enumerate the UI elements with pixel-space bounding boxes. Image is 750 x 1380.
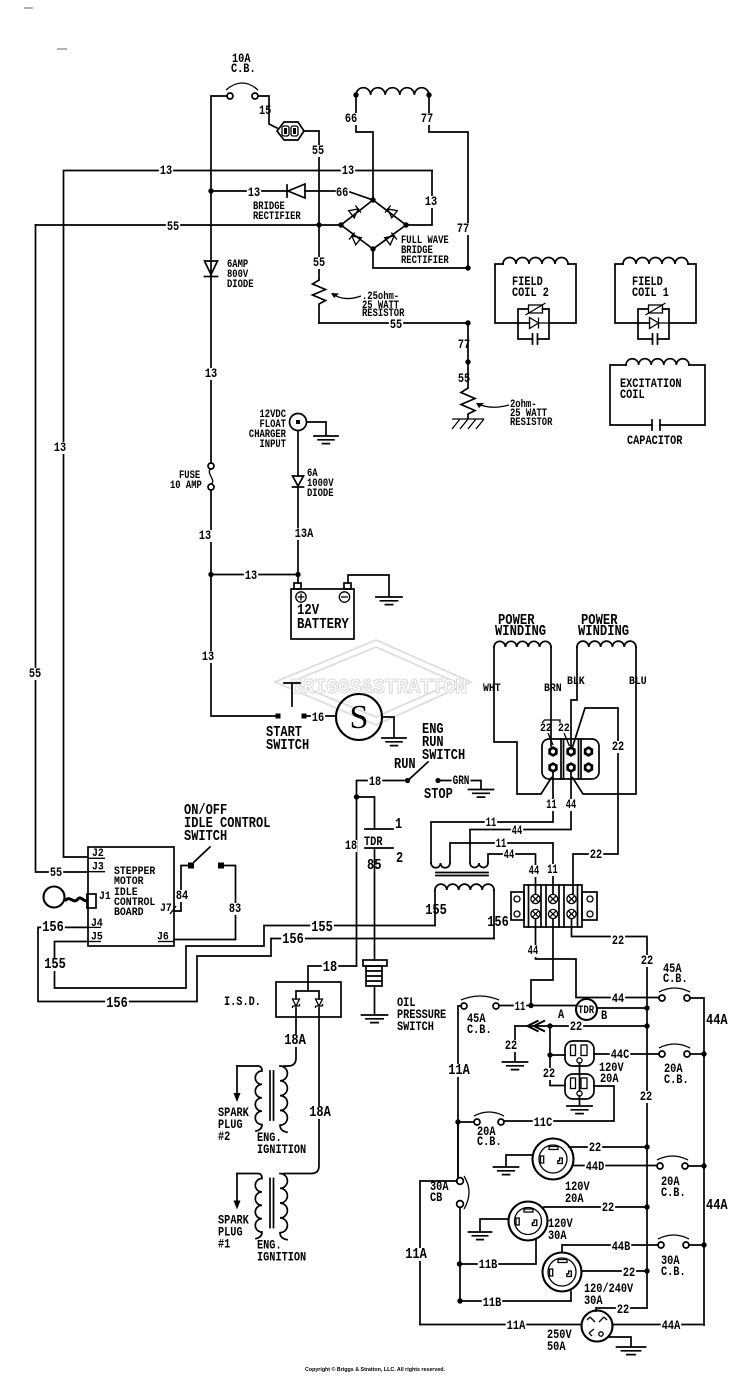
- svg-text:C.B.: C.B.: [477, 1134, 502, 1149]
- svg-text:11A: 11A: [448, 1063, 470, 1079]
- svg-text:C.B.: C.B.: [467, 1022, 492, 1037]
- wire 13 horizontal top: [64, 171, 433, 858]
- svg-text:C.B.: C.B.: [661, 1264, 686, 1279]
- svg-text:156: 156: [487, 915, 509, 931]
- svg-text:155: 155: [44, 957, 66, 973]
- ignition coil ENG IGNITION #1: [234, 1174, 288, 1240]
- wire diode to 66 node: [305, 191, 373, 200]
- watermark Briggs Stratton hexagon: [275, 640, 471, 725]
- wire 13 to bridge rectifier diode: [211, 190, 287, 192]
- terminal screw: [567, 909, 576, 918]
- svg-text:STOP: STOP: [424, 787, 453, 803]
- resistor 2 ohm 25 watt: [461, 323, 475, 418]
- circuit breaker 20A (11C): [474, 1119, 480, 1125]
- svg-text:44A: 44A: [706, 1013, 728, 1029]
- connector plug 15: [277, 122, 304, 140]
- wire 44C duplex to 20A breaker: [594, 1053, 659, 1055]
- svg-text:CAPACITOR: CAPACITOR: [627, 433, 683, 448]
- svg-text:22: 22: [590, 847, 602, 862]
- wire breaker left to node 13: [211, 96, 227, 191]
- svg-text:84: 84: [176, 888, 188, 903]
- svg-text:22: 22: [589, 1140, 601, 1155]
- svg-text:22: 22: [540, 723, 552, 735]
- svg-text:#1: #1: [218, 1237, 230, 1252]
- svg-text:11B: 11B: [483, 1295, 502, 1310]
- svg-text:155: 155: [311, 920, 333, 936]
- wire 156 J4 to transformer: [38, 927, 494, 1001]
- wire 77 node down: [465, 359, 470, 364]
- transformer secondary winding 155/156: [435, 884, 494, 890]
- generator output connector block: [542, 739, 599, 779]
- svg-text:13: 13: [202, 649, 214, 664]
- svg-text:30A: 30A: [548, 1228, 567, 1243]
- wire 45A CB to 44A column: [690, 998, 704, 1325]
- terminal screw: [548, 909, 557, 918]
- svg-text:156: 156: [42, 920, 64, 936]
- twist lock outlet 120/240V 30A: [543, 1253, 582, 1292]
- wire 11C duplex to 20A breaker: [504, 1086, 614, 1121]
- twist lock outlet 120V 30A: [509, 1202, 548, 1241]
- svg-text:1: 1: [395, 817, 402, 833]
- wire secondary right to 156: [493, 890, 495, 939]
- wire 18A to ignition 2: [284, 1017, 296, 1066]
- svg-text:Copyright © Briggs & Stratton,: Copyright © Briggs & Stratton, LLC. All …: [305, 1366, 445, 1373]
- svg-text:J4: J4: [91, 918, 103, 930]
- svg-text:44B: 44B: [612, 1239, 631, 1254]
- svg-text:WHT: WHT: [483, 683, 501, 695]
- wire secondary left to 155: [434, 890, 436, 926]
- wire 55 down to resistor: [318, 225, 320, 280]
- circuit breaker 20A (44D): [657, 1163, 663, 1169]
- svg-text:BRN: BRN: [544, 683, 562, 695]
- wire 155 J5 to transformer: [55, 926, 436, 989]
- svg-text:66: 66: [345, 111, 357, 126]
- wire charger to diode 13A: [297, 431, 299, 477]
- wire 44A to outlet: [613, 1324, 704, 1326]
- TDR timer coil: [357, 797, 394, 960]
- wire 11 to 45A breaker left: [499, 1005, 576, 1007]
- wire 11A to bottom: [420, 1181, 457, 1325]
- terminal screw: [567, 894, 576, 903]
- wire 22 splice to column: [515, 1025, 647, 1027]
- diode 6AMP 800V: [205, 261, 218, 277]
- wire 18 run to TDR column: [357, 781, 405, 967]
- svg-text:A: A: [558, 1007, 564, 1022]
- TDR relay contact: [576, 999, 597, 1020]
- transformer primary winding B: [470, 863, 488, 868]
- diode 6A 1000V: [293, 476, 304, 487]
- wire starter to ground: [382, 717, 394, 737]
- svg-text:55: 55: [313, 255, 325, 270]
- wires inside ISD: [296, 982, 319, 1017]
- svg-text:C.B.: C.B.: [663, 971, 688, 986]
- circuit breaker 45A left: [461, 1003, 467, 1009]
- svg-text:RECTIFIER: RECTIFIER: [253, 211, 301, 223]
- I.S.D. ignition shutdown module: [276, 982, 341, 1017]
- svg-text:I.S.D.: I.S.D.: [224, 994, 261, 1009]
- svg-text:RESISTOR: RESISTOR: [362, 308, 405, 320]
- wire 18A to ignition 1: [284, 1017, 319, 1174]
- wire 30A CB down: [458, 1122, 460, 1301]
- wire duplex grounds: [579, 1063, 581, 1105]
- svg-text:77: 77: [421, 111, 433, 126]
- svg-text:77: 77: [457, 221, 469, 236]
- wire outlet ground: [506, 1155, 533, 1166]
- svg-text:55: 55: [312, 143, 324, 158]
- wire 11 lower block to TDR: [531, 919, 553, 1006]
- svg-text:IGNITION: IGNITION: [257, 1142, 306, 1157]
- transformer primary winding A: [431, 863, 450, 868]
- svg-text:11A: 11A: [507, 1318, 526, 1333]
- wire 13 right corner down to bridge: [406, 171, 432, 226]
- svg-text:44: 44: [612, 991, 624, 1006]
- svg-text:10 AMP: 10 AMP: [170, 480, 202, 492]
- wire BLU: [573, 647, 637, 794]
- wire battery negative to ground: [348, 575, 389, 596]
- battery 12V: [291, 583, 354, 639]
- svg-text:20A: 20A: [600, 1071, 619, 1086]
- svg-text:C.B.: C.B.: [661, 1185, 686, 1200]
- svg-text:13: 13: [245, 568, 257, 583]
- svg-text:13: 13: [205, 366, 217, 381]
- wire 44D to 20A breaker: [574, 1165, 658, 1167]
- wire WHT: [494, 647, 552, 794]
- circuit breaker 20A (44C): [659, 1051, 665, 1057]
- wire 11B to outlet: [462, 1240, 536, 1264]
- svg-text:44: 44: [528, 943, 539, 958]
- svg-text:INPUT: INPUT: [260, 439, 287, 451]
- svg-text:22: 22: [602, 1200, 614, 1215]
- duplex outlet bottom: [565, 1074, 594, 1099]
- svg-text:55: 55: [50, 865, 62, 880]
- wire BLK: [571, 647, 577, 746]
- svg-text:18: 18: [369, 774, 381, 789]
- svg-text:BOARD: BOARD: [114, 907, 144, 919]
- label 2ohm 25 WATT RESISTOR with leader: [478, 404, 509, 407]
- starter motor S: [336, 694, 382, 740]
- diode bridge rectifier (13-66): [287, 184, 305, 198]
- wire 44 winding B to lower block: [488, 854, 536, 894]
- svg-text:11C: 11C: [534, 1115, 553, 1130]
- connector terminal: [548, 762, 557, 773]
- label 22 22 with leaders: [542, 720, 560, 723]
- svg-text:55: 55: [167, 219, 179, 234]
- wire bridge bottom to 77 column: [373, 249, 468, 268]
- wire outlet ground: [480, 1219, 508, 1231]
- svg-text:13: 13: [425, 194, 437, 209]
- svg-text:44A: 44A: [706, 1198, 728, 1214]
- wire 84 switch to J7: [174, 866, 188, 912]
- wire 11A down left: [458, 1006, 461, 1177]
- wire 22 right column: [572, 919, 648, 1308]
- svg-text:22: 22: [612, 933, 624, 948]
- circuit breaker 45A right: [659, 995, 665, 1001]
- svg-text:16: 16: [312, 710, 324, 725]
- svg-text:S: S: [350, 699, 369, 736]
- wire 55 resistor to 77 column: [319, 322, 468, 324]
- twist lock outlet 120V 20A: [533, 1139, 574, 1180]
- svg-text:COIL 1: COIL 1: [632, 285, 669, 300]
- page mark top left: [24, 7, 33, 9]
- 12VDC float charger input jack: [290, 414, 307, 431]
- svg-text:20A: 20A: [565, 1191, 584, 1206]
- full wave bridge rectifier diamond: [341, 200, 406, 249]
- outlet 250V 50A: [582, 1311, 613, 1342]
- wire 18 to ISD: [308, 966, 357, 982]
- svg-text:22: 22: [640, 1089, 652, 1104]
- svg-text:SWITCH: SWITCH: [184, 829, 227, 845]
- label .25ohm 25 WATT RESISTOR with leader: [333, 294, 361, 299]
- wire 22 outlet to column: [569, 1146, 647, 1148]
- svg-text:11: 11: [547, 862, 558, 877]
- svg-text:18: 18: [345, 838, 357, 853]
- on/off switch contacts: [188, 863, 194, 869]
- connector terminal: [584, 762, 593, 773]
- svg-text:13: 13: [54, 440, 66, 455]
- wire 22 outlet top: [596, 1308, 647, 1311]
- duplex outlet top: [565, 1041, 594, 1066]
- wire 55 left vertical to J3: [36, 225, 88, 872]
- svg-text:55: 55: [29, 666, 41, 681]
- wire TDR B to 22 column: [597, 1007, 647, 1009]
- svg-text:50A: 50A: [547, 1339, 566, 1354]
- wire 11 block to transformer primary A: [431, 772, 553, 863]
- wire breaker right to connector: [258, 96, 277, 128]
- svg-text:B: B: [601, 1008, 607, 1023]
- splice connector chevron: [528, 1021, 546, 1032]
- svg-text:J1: J1: [99, 891, 111, 903]
- wire 22 outlet to column: [544, 1206, 647, 1208]
- terminal screw: [531, 909, 540, 918]
- svg-text:11A: 11A: [405, 1247, 427, 1263]
- circuit breaker 30A (44B): [658, 1242, 664, 1248]
- transformer core: [436, 873, 488, 876]
- svg-text:#2: #2: [218, 1129, 230, 1144]
- wire 22 to right column: [573, 708, 619, 894]
- wire fuse to node 13: [210, 490, 212, 575]
- wire 13A to battery node: [297, 487, 299, 575]
- wire 11 winding A to lower block: [450, 843, 553, 894]
- wire 44 block to transformer primary B: [470, 772, 571, 863]
- svg-text:18: 18: [323, 960, 337, 976]
- svg-text:BATTERY: BATTERY: [297, 617, 349, 633]
- svg-text:2: 2: [396, 851, 403, 867]
- svg-text:CB: CB: [430, 1190, 442, 1205]
- wire 83 switch to J6: [174, 866, 236, 940]
- wire 13 down to start switch: [211, 575, 276, 717]
- svg-text:155: 155: [425, 903, 447, 919]
- svg-text:83: 83: [229, 901, 241, 916]
- svg-text:TDR: TDR: [364, 834, 383, 849]
- circuit breaker 10A C.B.: [226, 51, 258, 99]
- wire 44B to 30A breaker: [562, 1245, 658, 1252]
- wire coil left 66 to bridge top: [356, 95, 373, 200]
- node junction 13 at diode branch: [208, 188, 213, 193]
- diode left in ISD: [293, 999, 300, 1008]
- wire 11B to outlet bottom: [460, 1292, 571, 1302]
- svg-text:DIODE: DIODE: [227, 279, 254, 291]
- svg-text:13: 13: [199, 528, 211, 543]
- svg-text:44C: 44C: [611, 1047, 630, 1062]
- chassis ground hatched: [452, 419, 484, 429]
- wire BRN: [550, 647, 552, 746]
- svg-text:11: 11: [546, 797, 557, 812]
- svg-text:44: 44: [529, 863, 540, 878]
- svg-text:15: 15: [259, 103, 271, 118]
- wire 13 main vertical: [210, 191, 212, 463]
- wire 22 to duplex outlet: [550, 1026, 565, 1086]
- wire coil right 77 down right column: [429, 95, 468, 268]
- svg-text:DIODE: DIODE: [307, 488, 334, 500]
- svg-text:11: 11: [515, 999, 526, 1014]
- svg-text:22: 22: [617, 1302, 629, 1317]
- terminal screw: [531, 894, 540, 903]
- svg-text:13: 13: [160, 163, 172, 178]
- ground stub 22: [514, 1026, 516, 1061]
- stepper motor: [44, 887, 65, 908]
- wire 11A to outlet: [420, 1324, 581, 1326]
- svg-text:44D: 44D: [586, 1159, 605, 1174]
- svg-text:C.B.: C.B.: [664, 1072, 689, 1087]
- stop contact and GRN ground: [435, 778, 440, 783]
- svg-text:BLU: BLU: [629, 676, 647, 688]
- connector terminal: [548, 746, 557, 757]
- field coil box COIL 1: [615, 258, 696, 345]
- connector terminal: [584, 746, 593, 757]
- svg-text:BLK: BLK: [567, 676, 585, 688]
- wire 22 outlet to column: [582, 1270, 648, 1272]
- terminal screw: [548, 894, 557, 903]
- svg-text:COIL: COIL: [620, 387, 645, 402]
- svg-text:18A: 18A: [284, 1033, 306, 1049]
- wire node to battery: [211, 575, 298, 584]
- svg-text:44: 44: [566, 797, 577, 812]
- svg-text:COIL 2: COIL 2: [512, 285, 549, 300]
- svg-text:TDR: TDR: [578, 1005, 595, 1017]
- svg-text:22: 22: [612, 739, 624, 754]
- excitation coil box: [610, 359, 705, 425]
- svg-text:13: 13: [248, 185, 260, 200]
- svg-text:13: 13: [342, 163, 354, 178]
- svg-text:RECTIFIER: RECTIFIER: [401, 255, 449, 267]
- wire 55 horizontal: [36, 224, 342, 226]
- svg-text:RUN: RUN: [394, 757, 416, 773]
- wire outlet ground: [609, 1337, 631, 1346]
- svg-text:SWITCH: SWITCH: [397, 1019, 434, 1034]
- svg-text:22: 22: [543, 1066, 555, 1081]
- svg-text:22: 22: [505, 1038, 517, 1053]
- svg-text:22: 22: [641, 953, 653, 968]
- wire connector to 55 line: [304, 131, 319, 225]
- svg-text:22: 22: [570, 1019, 582, 1034]
- oil pressure switch: [363, 960, 387, 986]
- circuit breaker 30A CB: [457, 1178, 464, 1185]
- wire 44 to 45A breaker: [536, 919, 660, 998]
- svg-text:IGNITION: IGNITION: [257, 1250, 306, 1265]
- resistor .25 ohm 25 watt: [313, 280, 326, 323]
- start switch pushbutton: [276, 683, 307, 719]
- wire 16 to starter: [307, 715, 336, 717]
- page mark: [57, 48, 67, 50]
- svg-text:85: 85: [367, 858, 381, 874]
- svg-text:30A: 30A: [584, 1293, 603, 1308]
- field coil box COIL 2: [495, 258, 576, 345]
- connector terminal: [566, 746, 575, 757]
- svg-text:44A: 44A: [662, 1318, 681, 1333]
- svg-text:44: 44: [512, 823, 523, 838]
- svg-text:156: 156: [282, 932, 304, 948]
- junction 18: [354, 794, 359, 799]
- svg-text:11B: 11B: [479, 1257, 498, 1272]
- svg-text:SWITCH: SWITCH: [266, 738, 309, 754]
- svg-text:C.B.: C.B.: [231, 61, 256, 76]
- svg-text:66: 66: [336, 185, 348, 200]
- connector terminal: [566, 762, 575, 773]
- connector J1: [87, 894, 96, 908]
- svg-text:GRN: GRN: [453, 773, 470, 788]
- svg-text:13A: 13A: [295, 526, 314, 541]
- diode right in ISD: [316, 999, 323, 1008]
- ground at float charger: [307, 422, 327, 435]
- svg-text:WINDING: WINDING: [578, 624, 629, 640]
- svg-text:BRIGGS&STRATTON: BRIGGS&STRATTON: [291, 677, 467, 700]
- load terminal block: [511, 885, 597, 927]
- inductor coil 66-77: [356, 88, 429, 95]
- stepper motor idle control board: [88, 847, 174, 946]
- ignition coil ENG IGNITION #2: [234, 1066, 288, 1132]
- svg-text:RESISTOR: RESISTOR: [510, 417, 553, 429]
- svg-text:WINDING: WINDING: [495, 624, 546, 640]
- svg-text:22: 22: [623, 1265, 635, 1280]
- fuse 10 amp: [208, 463, 214, 490]
- svg-text:11: 11: [486, 815, 497, 830]
- capacitor on excitation coil: [652, 420, 660, 430]
- svg-text:44: 44: [504, 847, 515, 862]
- svg-text:156: 156: [106, 996, 128, 1012]
- svg-text:18A: 18A: [309, 1105, 331, 1121]
